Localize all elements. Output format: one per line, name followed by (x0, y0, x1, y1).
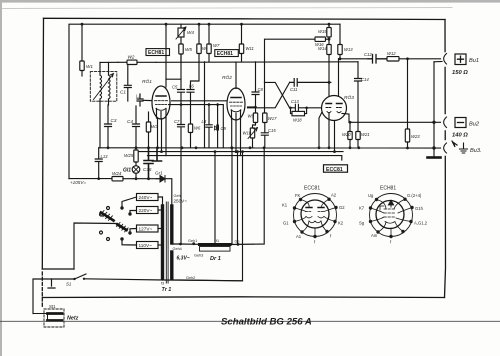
svg-text:ECC81: ECC81 (304, 186, 320, 192)
resistor W21 (356, 122, 370, 148)
tube RÖ3 pin drops (319, 112, 349, 152)
svg-text:127V~: 127V~ (139, 227, 153, 232)
svg-text:W14: W14 (318, 46, 327, 51)
svg-text:Ug: Ug (368, 193, 374, 198)
resistor W13 (338, 43, 353, 59)
wire C7 col to Dr1 line (181, 146, 233, 244)
resistor W16 (265, 37, 330, 82)
svg-text:Geh: Geh (174, 194, 181, 198)
svg-text:f: f (330, 234, 332, 239)
capacitor C3 (105, 105, 117, 148)
node B+ junctions (97, 177, 150, 180)
wire heater line (172, 150, 244, 281)
wire tube2 to C8 col (248, 106, 257, 109)
socket Bu2 jack (444, 117, 447, 128)
svg-text:Tr 1: Tr 1 (162, 287, 172, 293)
capacitor C1 (120, 62, 131, 101)
wire top rail drop to W13 (339, 24, 341, 43)
switch S1 (66, 274, 243, 287)
svg-text:C13: C13 (291, 99, 299, 104)
rectifier Gr1 (155, 171, 165, 183)
svg-text:L2: L2 (136, 94, 141, 99)
svg-text:A1: A1 (296, 234, 302, 239)
wire anode to output (339, 58, 369, 60)
node W16 junction (328, 38, 331, 41)
selector wiper hatched (100, 211, 128, 232)
wire B+ top rail (69, 24, 340, 178)
resistor W17 (263, 82, 277, 132)
scanner gray band top (0, 0, 500, 3)
svg-text:G1h: G1h (415, 206, 424, 211)
resistor W9 (248, 113, 258, 128)
wire mains to switch (48, 279, 75, 288)
capacitor C8 (252, 62, 264, 113)
voltage tap box 240V (137, 194, 163, 207)
svg-text:G2: G2 (339, 205, 345, 210)
svg-text:W9: W9 (248, 114, 255, 119)
wire output line Bu2 (349, 121, 441, 123)
node anode junction (339, 57, 342, 60)
capacitor C9 (215, 104, 227, 148)
resistor W3 (146, 112, 158, 148)
node bus junctions (107, 121, 436, 153)
capacitor C15 (261, 128, 276, 148)
svg-text:St1: St1 (49, 304, 56, 309)
svg-text:W5: W5 (185, 47, 192, 52)
faint page edge line (2, 8, 452, 9)
svg-text:C16: C16 (143, 167, 152, 172)
label box ECC81 (324, 165, 348, 173)
svg-text:FK: FK (295, 193, 301, 198)
wire Dr1 output (230, 148, 264, 246)
wire bus 3 (148, 156, 342, 160)
svg-text:W1: W1 (86, 64, 93, 69)
svg-text:C11: C11 (290, 87, 297, 92)
voltage tap box 220V (137, 207, 163, 214)
svg-text:RÖ1: RÖ1 (142, 78, 152, 85)
svg-text:W11: W11 (246, 46, 254, 51)
capacitor C4 (127, 106, 140, 148)
svg-text:Bu2: Bu2 (469, 122, 480, 128)
svg-text:Geh2: Geh2 (186, 276, 195, 280)
potentiometer W10 (243, 128, 258, 148)
svg-text:110V~: 110V~ (139, 243, 153, 248)
svg-text:W21: W21 (361, 132, 370, 137)
svg-text:W7: W7 (213, 43, 220, 48)
svg-text:Am: Am (371, 233, 378, 238)
socket diagram ECH81 (359, 186, 428, 245)
wire grid column RÖ3 (326, 81, 331, 103)
svg-text:ECH81: ECH81 (380, 186, 396, 192)
node top rail junctions (81, 23, 331, 26)
terminal Bu3 ground (452, 141, 482, 154)
wire bus to Dr1 line drop (236, 150, 239, 244)
svg-text:C7: C7 (174, 119, 180, 124)
svg-text:Geh1: Geh1 (188, 239, 197, 243)
resistor W2 (118, 55, 156, 65)
capacitor C7 (174, 119, 185, 148)
svg-text:W17: W17 (268, 116, 277, 121)
capacitor L6 (187, 62, 199, 124)
svg-text:RÖ3: RÖ3 (344, 94, 354, 101)
svg-text:K7: K7 (359, 206, 365, 211)
tube label box ECH81 (RÖ1) (146, 49, 170, 57)
svg-text:S1: S1 (66, 282, 72, 287)
fuse Si1 (44, 304, 64, 327)
capacitor C16 (143, 148, 153, 179)
trimmer W4 (176, 24, 194, 39)
tube label box ECH81 (RÖ2) (215, 50, 239, 58)
svg-text:W24: W24 (112, 171, 122, 176)
wire plug leads (33, 279, 52, 314)
socket diagram ECC81 (282, 186, 345, 245)
resistor W11 (239, 24, 254, 62)
selector contacts (100, 197, 137, 245)
svg-text:220V~: 220V~ (139, 208, 153, 213)
svg-text:Bu3.: Bu3. (470, 148, 482, 154)
svg-text:Geh4: Geh4 (173, 247, 182, 251)
svg-text:C1: C1 (120, 90, 126, 95)
ground chassis bar (428, 156, 441, 159)
tube RÖ1 pin drops (158, 118, 167, 156)
resistor W15 (318, 24, 331, 39)
svg-text:ECC81: ECC81 (326, 167, 343, 173)
capacitor C13 (289, 99, 321, 111)
svg-text:K2: K2 (338, 221, 344, 226)
resistor W5 (179, 37, 193, 62)
resistor W24 (112, 171, 133, 181)
tube RÖ3 (322, 94, 355, 121)
svg-text:C8: C8 (258, 87, 264, 92)
svg-text:W2: W2 (128, 55, 135, 60)
resistor W25 (124, 148, 138, 162)
resistor W7 (207, 43, 220, 62)
border frame (42, 18, 445, 308)
resistor W14 (318, 39, 331, 82)
svg-text:A,G1,2: A,G1,2 (414, 221, 428, 226)
wire rectified line to Dr1 (172, 239, 200, 245)
resistor W1 (80, 24, 94, 76)
svg-text:L13: L13 (101, 154, 109, 159)
svg-text:A2: A2 (331, 193, 337, 198)
svg-text:C4: C4 (127, 119, 133, 124)
capacitor C5 (172, 55, 185, 125)
resistor W18 (291, 108, 307, 123)
svg-text:W15: W15 (318, 29, 327, 34)
svg-text:ECH81: ECH81 (217, 51, 233, 57)
svg-text:+105V=: +105V= (70, 180, 86, 185)
resistor W20 (342, 121, 352, 148)
svg-text:W13: W13 (344, 47, 353, 52)
svg-text:f: f (314, 240, 316, 245)
svg-text:W10: W10 (243, 131, 252, 136)
svg-text:240V~: 240V~ (139, 195, 153, 200)
svg-text:Gl1: Gl1 (123, 168, 131, 174)
svg-text:Geh3: Geh3 (194, 254, 203, 258)
svg-text:C9: C9 (221, 126, 227, 131)
wire screen col (204, 62, 206, 148)
wire anode column RÖ3 (338, 59, 340, 97)
svg-text:Gr1: Gr1 (155, 171, 163, 176)
svg-text:C15: C15 (268, 128, 276, 133)
wire B+ feed line (69, 179, 172, 206)
terminal Bu1 (452, 54, 479, 76)
node W12 out (406, 57, 409, 60)
wire bus 2 (135, 151, 343, 153)
capacitor L8 (202, 104, 213, 148)
capacitor C12 (364, 52, 387, 63)
transformer Tr1 (161, 202, 172, 293)
scanner gray band left (0, 0, 2, 356)
svg-text:Schaltbild BG 256 A: Schaltbild BG 256 A (221, 317, 312, 328)
wire ground line Bu3 (99, 147, 441, 149)
wire grid coupling line (169, 101, 229, 148)
svg-text:f: f (390, 240, 392, 245)
wire anode line mid (100, 61, 358, 64)
svg-text:G.(2+4): G.(2+4) (407, 193, 422, 198)
resistor W6a (197, 44, 209, 62)
wire coupling cross (248, 82, 290, 107)
capacitor C11 (290, 79, 331, 92)
svg-text:RÖ2: RÖ2 (222, 74, 232, 81)
svg-text:150 Ω: 150 Ω (452, 70, 468, 76)
svg-text:C5: C5 (172, 85, 178, 90)
IF transformer L3 L4 (dashed box) (90, 63, 117, 148)
svg-text:140 Ω: 140 Ω (452, 133, 468, 139)
socket Bu3 jack (444, 143, 447, 153)
svg-text:W6: W6 (194, 126, 201, 131)
svg-text:f1: f1 (216, 239, 219, 243)
svg-text:W20: W20 (342, 132, 351, 137)
terminal Bu2 (452, 118, 480, 139)
svg-text:C12: C12 (364, 52, 372, 57)
socket Bu1 jack (434, 54, 447, 65)
coil L2 (136, 94, 153, 107)
svg-text:f3: f3 (161, 282, 164, 286)
wire jack shield drop (433, 62, 435, 157)
capacitor L13 (95, 148, 108, 179)
resistor W23 (405, 59, 420, 148)
choke Dr1 (194, 239, 230, 262)
voltage tap box 127V (137, 225, 163, 232)
wire choke tap drop (214, 150, 217, 243)
tube RÖ2 pin drops (232, 119, 241, 156)
tube RÖ1 (142, 24, 181, 119)
svg-text:6,3V~: 6,3V~ (177, 256, 190, 262)
capacitor C14 (355, 62, 370, 123)
svg-text:W23: W23 (411, 134, 420, 139)
resistor W12 (387, 51, 441, 61)
resistor W6 (188, 124, 201, 148)
svg-text:Dr 1: Dr 1 (210, 256, 221, 262)
svg-text:C3: C3 (111, 118, 117, 123)
svg-text:W18: W18 (293, 118, 302, 123)
plug Netz (33, 314, 79, 322)
svg-text:W25: W25 (124, 153, 134, 158)
title rule (0, 320, 500, 322)
svg-text:ECH81: ECH81 (148, 50, 164, 56)
svg-text:G1: G1 (283, 221, 289, 226)
svg-text:K1: K1 (282, 203, 288, 208)
svg-text:Sg: Sg (359, 221, 365, 226)
svg-text:Netz: Netz (67, 316, 79, 322)
ground chassis at C16 (153, 148, 162, 161)
voltage tap box 110V (137, 242, 163, 249)
label Geh 250V (174, 194, 188, 204)
wire screen feeds (199, 24, 209, 44)
lamp Gl1 (123, 162, 140, 179)
svg-text:W4: W4 (187, 30, 194, 35)
wire selector common (74, 223, 117, 269)
svg-text:250V~: 250V~ (174, 199, 188, 204)
tube RÖ2 (222, 62, 245, 120)
svg-text:L6: L6 (189, 84, 194, 89)
wire primary bottom (162, 279, 164, 281)
svg-text:W12: W12 (387, 51, 396, 56)
svg-text:C14: C14 (361, 77, 369, 82)
svg-text:L8: L8 (202, 119, 207, 124)
svg-text:Bu1: Bu1 (469, 58, 479, 64)
